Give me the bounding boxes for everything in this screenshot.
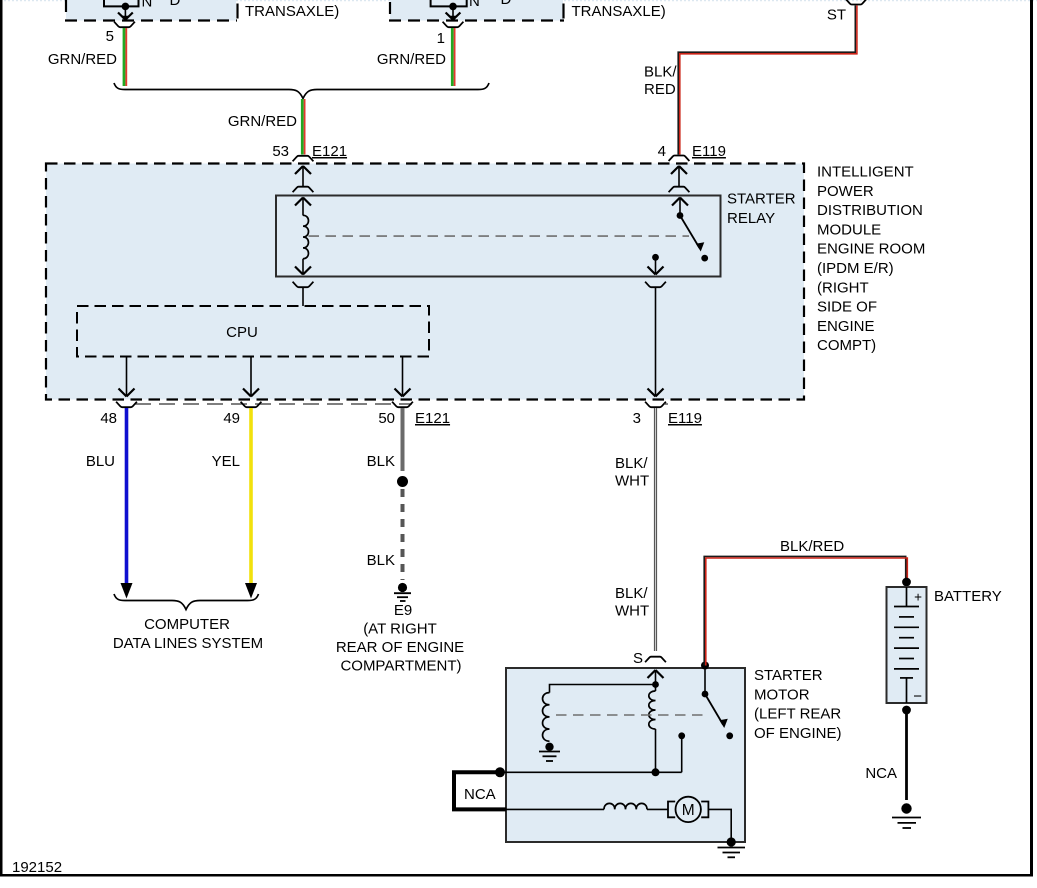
NCA loop wire (thick) bbox=[454, 772, 506, 809]
svg-text:53: 53 bbox=[272, 143, 289, 160]
node battery positive bbox=[902, 578, 911, 587]
svg-text:GRN/RED: GRN/RED bbox=[48, 51, 117, 68]
SECTION: starter motor bbox=[454, 662, 842, 858]
relay output arrow (down) bbox=[655, 257, 657, 274]
relay coil bbox=[303, 215, 308, 258]
wire to hold-in coil bbox=[550, 685, 656, 693]
node pull-in coil to bus bbox=[652, 768, 660, 776]
relay coil exit arrow (down) bbox=[302, 259, 304, 275]
svg-text:GRN/RED: GRN/RED bbox=[377, 51, 446, 68]
wire YEL bbox=[249, 408, 253, 584]
svg-text:E119: E119 bbox=[668, 410, 702, 427]
wire BLK/RED from ST bbox=[678, 6, 855, 155]
wire motor to ground bbox=[708, 809, 731, 842]
IPDM E/R module box bbox=[46, 164, 804, 400]
svg-text:50: 50 bbox=[378, 410, 395, 427]
pull-in coil L2 bbox=[655, 685, 657, 692]
svg-text:BLU: BLU bbox=[86, 453, 115, 470]
computer data lines brace bbox=[114, 594, 259, 610]
wire BLK/WHT pin3 to S bbox=[654, 408, 657, 651]
connector E119 cap at pin 4 bbox=[669, 156, 690, 162]
svg-text:M: M bbox=[682, 802, 695, 819]
svg-text:BLK/RED: BLK/RED bbox=[780, 538, 844, 555]
relay terminal cap (right, above relay box) bbox=[669, 187, 690, 193]
SECTION: relay internals bbox=[276, 191, 796, 397]
box 2 selector bracket bbox=[431, 0, 467, 6]
YEL wire arrow bbox=[245, 583, 257, 599]
connector cup pin 48 bbox=[116, 402, 137, 408]
SECTION: below-IPDM wires bbox=[86, 402, 702, 675]
box 2 selector arrow bbox=[452, 6, 454, 19]
wire NCA battery ground bbox=[905, 710, 908, 800]
svg-text:COMPARTMENT): COMPARTMENT) bbox=[340, 658, 461, 675]
svg-text:BLK/: BLK/ bbox=[615, 455, 648, 472]
wire battery feed to switch bbox=[704, 666, 706, 695]
svg-text:ENGINE ROOM: ENGINE ROOM bbox=[817, 241, 925, 258]
svg-text:SIDE OF: SIDE OF bbox=[817, 299, 877, 316]
PNP switch box 2 (cut off at top) bbox=[390, 0, 563, 21]
wire GRN/RED merged bbox=[301, 99, 304, 155]
wire BLU bbox=[125, 408, 129, 584]
ground (hold-in coil) bbox=[545, 743, 553, 751]
connector E121 rail (bottom) bbox=[135, 403, 412, 405]
box 2 junction dot bbox=[449, 3, 457, 11]
switch pivot dot bbox=[702, 691, 709, 698]
connector cup at ST bbox=[846, 0, 867, 5]
svg-text:(RIGHT: (RIGHT bbox=[817, 279, 869, 296]
svg-text:COMPT): COMPT) bbox=[817, 337, 876, 354]
node solenoid junction bbox=[652, 681, 659, 688]
svg-text:1: 1 bbox=[437, 30, 445, 47]
svg-text:NCA: NCA bbox=[865, 765, 897, 782]
svg-text:REAR OF ENGINE: REAR OF ENGINE bbox=[336, 639, 464, 656]
armature series coil bbox=[604, 803, 647, 809]
svg-text:D: D bbox=[170, 0, 181, 9]
connector cup pin 49 bbox=[241, 402, 262, 408]
relay actuation dashed line bbox=[309, 235, 690, 237]
relay coil terminal arrow (up) bbox=[302, 198, 304, 216]
wire CPU to pin 50 bbox=[402, 357, 404, 397]
SECTION: CPU + bottom pins bbox=[77, 306, 429, 397]
SECTION: battery bbox=[704, 538, 1002, 828]
svg-text:STARTER: STARTER bbox=[754, 667, 823, 684]
box 1 junction dot bbox=[122, 3, 130, 11]
PNP switch box 1 (cut off at top) bbox=[66, 0, 236, 21]
connector cap at S bbox=[645, 657, 666, 663]
battery box bbox=[887, 587, 927, 703]
wire CPU to pin 48 bbox=[126, 357, 128, 397]
ground (battery) bbox=[901, 803, 911, 813]
connector E121 cap at pin 53 bbox=[293, 156, 314, 162]
svg-text:YEL: YEL bbox=[212, 453, 240, 470]
connector rail pin3 to E119 bbox=[664, 403, 668, 405]
svg-text:49: 49 bbox=[223, 410, 240, 427]
switch blade bbox=[705, 694, 723, 725]
svg-text:ST: ST bbox=[827, 7, 846, 24]
solenoid actuation dashed line bbox=[556, 714, 706, 716]
pin 53 entry arrow (up) bbox=[302, 166, 304, 186]
faint cut edge at top bbox=[0, 0, 1037, 2]
BLK junction dot bbox=[397, 476, 408, 487]
svg-text:E121: E121 bbox=[312, 143, 347, 160]
ground E9 bbox=[398, 583, 407, 592]
svg-text:E9: E9 bbox=[394, 602, 412, 619]
switch throw dot bbox=[726, 732, 733, 739]
svg-text:DISTRIBUTION: DISTRIBUTION bbox=[817, 202, 923, 219]
border right bbox=[1030, 0, 1033, 877]
svg-text:+: + bbox=[914, 590, 922, 605]
starter relay box bbox=[276, 196, 721, 277]
border bottom bbox=[0, 874, 1033, 877]
hold-in coil L1 bbox=[543, 693, 550, 742]
pin 48 exit arrow (down) bbox=[119, 389, 135, 397]
battery internal stem top bbox=[906, 587, 908, 607]
wire BLK dashed part bbox=[401, 489, 405, 580]
wire relay coil to CPU bbox=[302, 288, 304, 307]
svg-text:OF ENGINE): OF ENGINE) bbox=[754, 725, 842, 742]
wire GRN/RED from pin 5 bbox=[123, 28, 126, 86]
SECTION: top PNP switch boxes bbox=[65, 0, 666, 21]
motor contact dot bbox=[678, 732, 685, 739]
wire bus at y772 bbox=[500, 771, 682, 773]
svg-text:D: D bbox=[501, 0, 512, 8]
svg-text:4: 4 bbox=[658, 143, 666, 160]
svg-text:STARTER: STARTER bbox=[727, 191, 796, 208]
connector cup pin 50 bbox=[392, 402, 413, 408]
wire to armature bbox=[505, 808, 604, 810]
merge brace bbox=[114, 83, 489, 99]
svg-text:48: 48 bbox=[100, 410, 117, 427]
SECTION: IPDM box bbox=[46, 164, 925, 400]
relay switch blade bbox=[680, 216, 700, 249]
relay output cup (below relay box) bbox=[645, 282, 666, 288]
relay output contact dot bbox=[652, 254, 659, 261]
svg-text:WHT: WHT bbox=[615, 603, 649, 620]
svg-text:BLK/: BLK/ bbox=[644, 64, 677, 81]
relay switch pivot dot bbox=[677, 212, 684, 219]
starter motor box bbox=[506, 668, 745, 842]
battery plates bbox=[894, 606, 919, 608]
SECTION: ST wire bbox=[644, 0, 866, 161]
relay terminal cap (left, above relay box) bbox=[293, 187, 314, 193]
svg-text:(IPDM E/R): (IPDM E/R) bbox=[817, 260, 894, 277]
svg-text:INTELLIGENT: INTELLIGENT bbox=[817, 164, 914, 181]
node battery negative bbox=[902, 706, 911, 715]
svg-text:TRANSAXLE): TRANSAXLE) bbox=[245, 3, 339, 20]
svg-text:COMPUTER: COMPUTER bbox=[144, 616, 230, 633]
border left bbox=[0, 0, 3, 877]
svg-text:−: − bbox=[913, 688, 922, 705]
pin 49 exit arrow (down) bbox=[243, 389, 259, 397]
svg-text:S: S bbox=[633, 650, 643, 667]
BLU wire arrow bbox=[121, 583, 133, 599]
node NCA tap bbox=[495, 767, 505, 777]
SECTION: GRN/RED wires + brace bbox=[48, 22, 489, 162]
wire BLK solid part bbox=[401, 408, 405, 471]
motor M symbol bbox=[668, 802, 675, 818]
ground (motor) bbox=[727, 837, 736, 846]
wire coil to motor bbox=[647, 808, 668, 810]
svg-text:TRANSAXLE): TRANSAXLE) bbox=[572, 3, 666, 20]
svg-text:BATTERY: BATTERY bbox=[934, 588, 1002, 605]
svg-text:(AT RIGHT: (AT RIGHT bbox=[363, 621, 437, 638]
svg-text:RED: RED bbox=[644, 81, 676, 98]
svg-text:N: N bbox=[142, 0, 153, 11]
svg-text:NCA: NCA bbox=[464, 786, 496, 803]
svg-text:GRN/RED: GRN/RED bbox=[228, 113, 297, 130]
box 1 selector bracket bbox=[104, 0, 139, 6]
wire relay output to pin 3 bbox=[655, 288, 657, 397]
connector pin 1 (cup symbol) bbox=[443, 22, 464, 28]
pin 50 exit arrow (down) bbox=[395, 389, 411, 397]
svg-text:192152: 192152 bbox=[12, 859, 62, 876]
svg-text:ENGINE: ENGINE bbox=[817, 318, 875, 335]
connector cup pin 3 bbox=[645, 402, 666, 408]
svg-text:POWER: POWER bbox=[817, 183, 874, 200]
svg-text:N: N bbox=[469, 0, 480, 10]
wire GRN/RED from pin 1 bbox=[451, 28, 454, 86]
connector pin 5 (cup symbol) bbox=[114, 22, 135, 28]
svg-text:WHT: WHT bbox=[615, 473, 649, 490]
svg-text:MODULE: MODULE bbox=[817, 221, 881, 238]
svg-text:E119: E119 bbox=[692, 143, 726, 160]
box 1 selector arrow bbox=[124, 6, 126, 19]
relay switch common arrow (up) bbox=[679, 198, 681, 216]
svg-text:3: 3 bbox=[633, 410, 641, 427]
relay coil exit cup (below relay box) bbox=[293, 282, 314, 288]
wire CPU to pin 49 bbox=[250, 357, 252, 397]
node battery feed on box edge bbox=[701, 662, 709, 670]
svg-text:E121: E121 bbox=[415, 410, 450, 427]
svg-text:5: 5 bbox=[106, 28, 114, 45]
svg-text:RELAY: RELAY bbox=[727, 210, 775, 227]
CPU box bbox=[77, 306, 429, 357]
svg-text:(LEFT REAR: (LEFT REAR bbox=[754, 706, 841, 723]
wire BLK/RED battery feed bbox=[704, 556, 906, 665]
wire contact to motor node bbox=[681, 736, 683, 773]
svg-text:BLK: BLK bbox=[367, 453, 395, 470]
svg-text:DATA LINES SYSTEM: DATA LINES SYSTEM bbox=[113, 635, 263, 652]
relay switch throw dot bbox=[701, 255, 708, 262]
svg-text:BLK/: BLK/ bbox=[615, 585, 648, 602]
battery internal stem bottom bbox=[906, 678, 908, 703]
svg-text:BLK: BLK bbox=[367, 552, 395, 569]
svg-text:CPU: CPU bbox=[226, 324, 258, 341]
S entry arrow (up) bbox=[655, 670, 657, 685]
pin 3 exit arrow (down) bbox=[648, 389, 664, 397]
svg-text:MOTOR: MOTOR bbox=[754, 686, 810, 703]
pin 4 entry arrow (up) bbox=[678, 166, 680, 186]
